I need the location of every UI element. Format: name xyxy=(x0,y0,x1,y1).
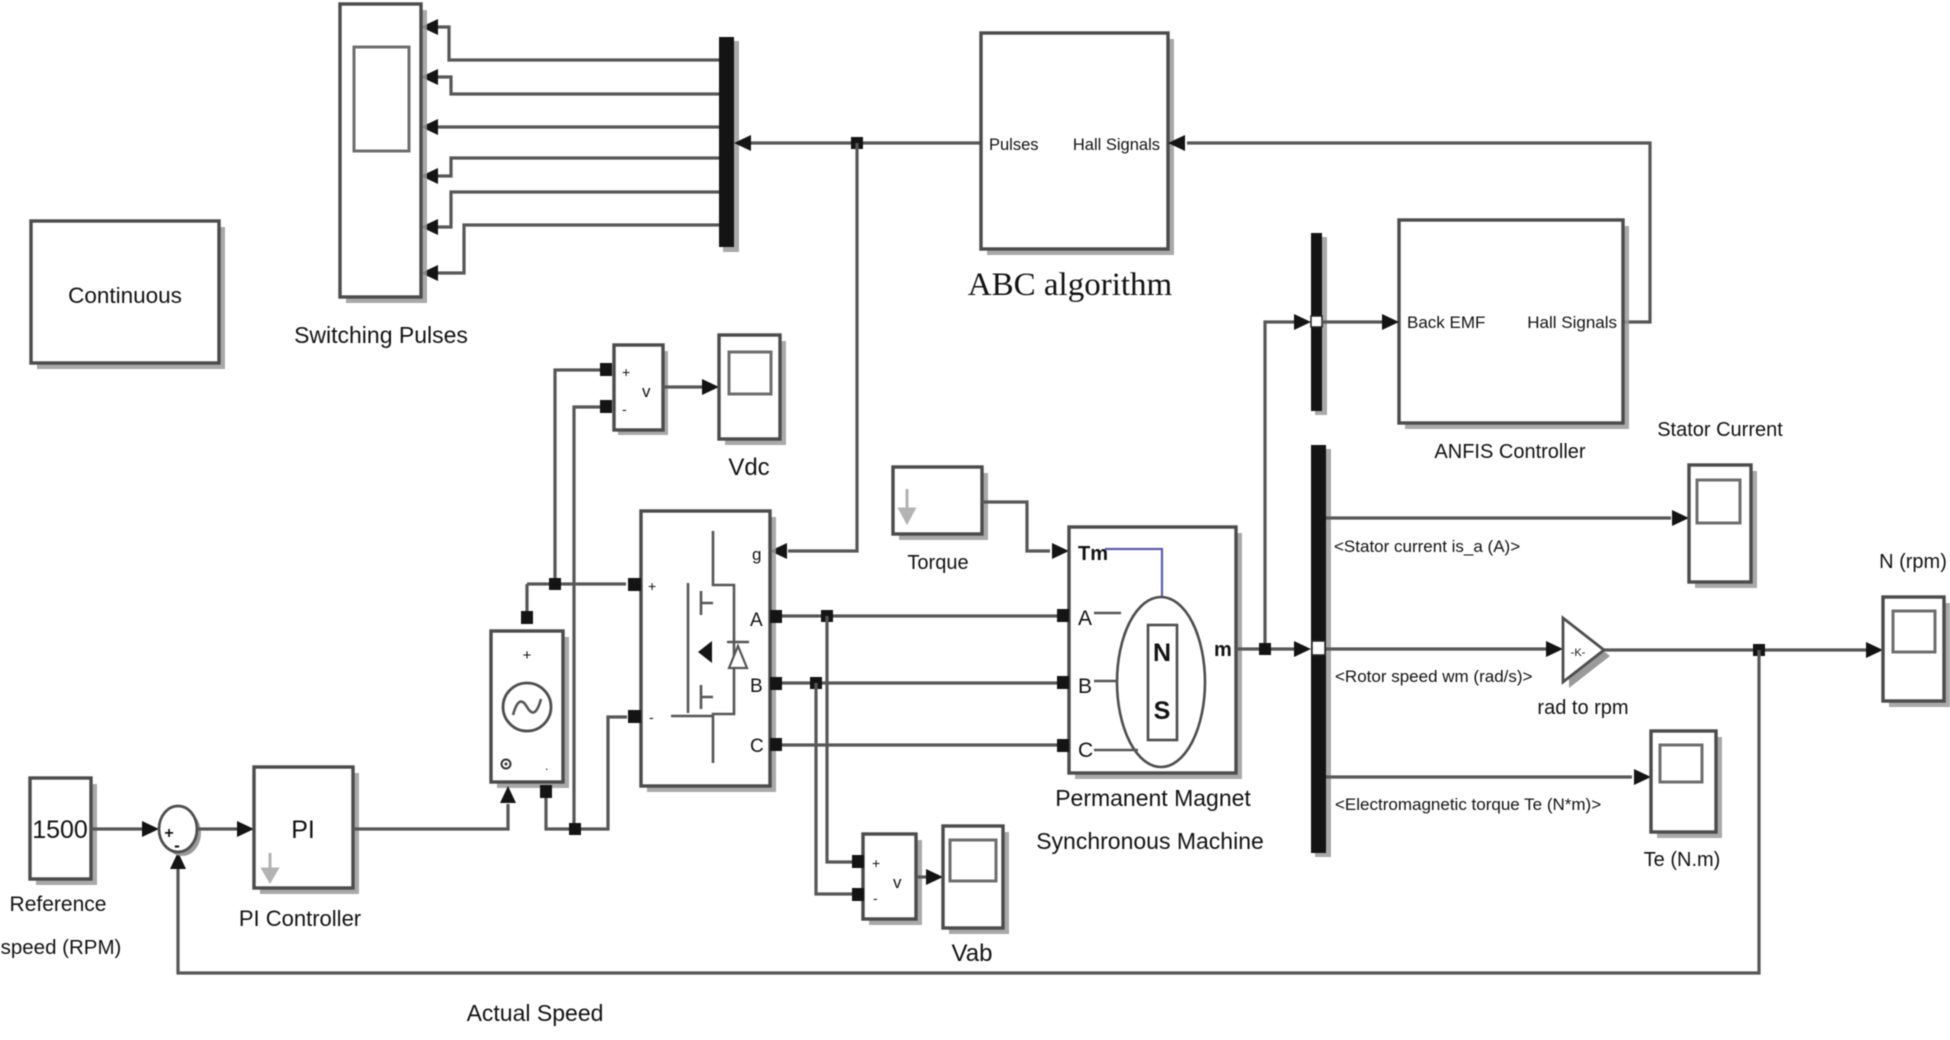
svg-text:+: + xyxy=(523,647,532,664)
svg-text:Te (N.m): Te (N.m) xyxy=(1644,849,1721,871)
node junction pulses/gate xyxy=(851,137,863,149)
wire rotor speed to gain xyxy=(1326,647,1546,650)
svg-text:N (rpm): N (rpm) xyxy=(1879,551,1947,573)
wire dc plus rail xyxy=(527,584,626,611)
svg-text:A: A xyxy=(1078,607,1092,630)
scope N (rpm) xyxy=(1879,551,1950,707)
universal bridge inverter xyxy=(628,511,782,792)
svg-text:-: - xyxy=(649,709,654,725)
wire V2 to Vab scope xyxy=(916,875,926,878)
svg-text:<Rotor speed wm (rad/s)>: <Rotor speed wm (rad/s)> xyxy=(1335,667,1533,686)
demux Demux2 (back emf bar) xyxy=(1311,233,1327,415)
svg-text:Synchronous Machine: Synchronous Machine xyxy=(1036,828,1264,854)
constant 1500 xyxy=(1,778,122,959)
svg-text:Vab: Vab xyxy=(952,940,993,967)
svg-text:<Electromagnetic torque Te (N*: <Electromagnetic torque Te (N*m)> xyxy=(1335,795,1601,814)
wire phase C xyxy=(782,743,1057,746)
subsystem ABC algorithm xyxy=(968,33,1174,303)
svg-text:1500: 1500 xyxy=(32,816,88,844)
svg-text:Reference: Reference xyxy=(10,893,107,916)
wire sum to PI xyxy=(197,827,237,830)
wire torque to Tm xyxy=(982,502,1050,551)
wire demux out 4 xyxy=(437,158,719,176)
node junction feedback xyxy=(1753,644,1765,656)
wire pulses net: ABC Pulses output to demux xyxy=(750,141,981,144)
svg-text:v: v xyxy=(642,382,651,401)
wire B to Vab minus xyxy=(816,683,852,894)
scope Stator Current xyxy=(1657,419,1783,588)
diode D xyxy=(727,641,749,644)
wire m output xyxy=(1236,647,1295,650)
voltage measurement V1 xyxy=(600,345,668,435)
svg-text:g: g xyxy=(752,545,761,564)
wire Demux2 to ANFIS Back EMF xyxy=(1322,320,1382,323)
wire 1500 to sum xyxy=(91,827,142,830)
svg-text:S: S xyxy=(1154,697,1171,725)
svg-text:B: B xyxy=(1078,675,1092,698)
svg-text:<Stator current is_a (A)>: <Stator current is_a (A)> xyxy=(1334,537,1520,556)
svg-text:Hall Signals: Hall Signals xyxy=(1527,313,1617,332)
voltage measurement V2 xyxy=(852,834,922,925)
svg-text:v: v xyxy=(893,873,902,892)
wire dc minus rail xyxy=(546,717,627,829)
svg-text:Hall Signals: Hall Signals xyxy=(1073,136,1160,154)
svg-text:Continuous: Continuous xyxy=(68,283,182,308)
svg-text:+: + xyxy=(164,825,173,842)
node junction B xyxy=(810,677,822,689)
sum block xyxy=(159,806,201,856)
dc voltage source E xyxy=(491,611,569,798)
wire demux out 1 xyxy=(437,27,719,60)
wire demux out 6 xyxy=(437,225,719,273)
svg-text:m: m xyxy=(1214,639,1232,661)
wire speed feedback xyxy=(178,650,1759,973)
wire V1 minus sense xyxy=(574,407,600,829)
wire A to Vab plus xyxy=(827,616,852,862)
svg-text:-: - xyxy=(622,401,627,417)
scope Vdc xyxy=(719,335,786,481)
subsystem ANFIS Controller xyxy=(1399,220,1629,463)
svg-text:Actual Speed: Actual Speed xyxy=(467,1000,604,1026)
node junction m xyxy=(1259,643,1271,655)
scope Te xyxy=(1644,731,1722,871)
svg-text:ABC algorithm: ABC algorithm xyxy=(968,267,1173,303)
arrowheads into Switching Pulses scope xyxy=(421,19,438,35)
wire PI to dc source xyxy=(353,804,508,829)
demux Demux1 (switching pulses bus bar) xyxy=(719,37,739,252)
constant Torque xyxy=(893,467,988,574)
wire hall signals: ANFIS out up and left into ABC xyxy=(1187,143,1650,322)
wire gate: junction down to inverter g input xyxy=(788,143,857,551)
svg-text:PI: PI xyxy=(291,816,315,844)
wire m to Demux2 xyxy=(1265,322,1295,649)
wire phase A xyxy=(782,614,1057,617)
svg-text:A: A xyxy=(750,610,763,631)
svg-text:Back EMF: Back EMF xyxy=(1407,313,1485,332)
svg-text:+: + xyxy=(648,578,656,594)
wire V1 to Vdc scope xyxy=(663,385,702,388)
wire V1 plus sense xyxy=(555,370,600,584)
svg-text:Vdc: Vdc xyxy=(728,454,769,481)
svg-text:+: + xyxy=(622,364,630,380)
pid PI Controller xyxy=(239,767,361,931)
svg-text:Torque: Torque xyxy=(907,552,968,574)
gain rad to rpm xyxy=(1537,618,1628,719)
wire demux out 2 xyxy=(437,77,719,94)
svg-text:PI Controller: PI Controller xyxy=(239,906,361,931)
mosfet icon xyxy=(713,531,734,763)
wire stator current xyxy=(1326,516,1671,519)
svg-text:Permanent Magnet: Permanent Magnet xyxy=(1055,785,1251,811)
wire demux out 3 xyxy=(437,125,719,128)
svg-text:rad to rpm: rad to rpm xyxy=(1537,697,1628,719)
svg-text:Stator Current: Stator Current xyxy=(1657,419,1783,441)
svg-text:Tm: Tm xyxy=(1078,543,1108,565)
svg-text:-: - xyxy=(174,836,180,855)
bus selector Demux3 xyxy=(1311,445,1331,857)
node junction plus/V1 xyxy=(549,578,561,590)
svg-text:Pulses: Pulses xyxy=(989,136,1039,154)
svg-text:-K-: -K- xyxy=(1571,647,1586,659)
svg-text:C: C xyxy=(1078,739,1093,762)
wire demux out 5 xyxy=(437,192,719,227)
wire phase B xyxy=(782,681,1057,684)
node junction minus/V1 xyxy=(569,823,581,835)
svg-text:speed (RPM): speed (RPM) xyxy=(1,936,122,959)
powergui Continuous xyxy=(31,221,225,369)
scope Vab xyxy=(943,826,1009,967)
svg-text:B: B xyxy=(750,676,763,697)
node junction A xyxy=(821,610,833,622)
svg-text:-: - xyxy=(873,890,878,906)
svg-text:+: + xyxy=(872,855,880,871)
wire electromagnetic torque xyxy=(1326,775,1632,778)
svg-text:Switching Pulses: Switching Pulses xyxy=(294,322,468,348)
pmsm Permanent Magnet Synchronous Machine xyxy=(1036,527,1264,854)
svg-text:ANFIS Controller: ANFIS Controller xyxy=(1434,441,1585,463)
wire gain to N scope xyxy=(1604,648,1866,651)
scope Switching Pulses xyxy=(294,4,468,348)
svg-text:.: . xyxy=(545,759,548,773)
svg-text:N: N xyxy=(1153,639,1171,667)
svg-text:C: C xyxy=(750,736,764,757)
